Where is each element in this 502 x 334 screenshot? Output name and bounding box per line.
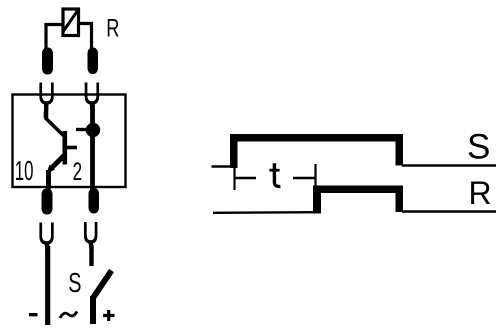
label minus	[29, 313, 38, 316]
wire bottom-left to minus	[45, 246, 50, 325]
connector pin top-right	[88, 48, 99, 75]
S waveform low lead-in	[212, 165, 234, 167]
transistor Q1 emitter with arrow	[47, 156, 65, 174]
R waveform high level	[313, 186, 402, 194]
box (module outline)	[13, 95, 126, 188]
connector pin bottom-left	[42, 189, 53, 215]
connector jack top-left	[39, 83, 53, 105]
connector pin top-left	[42, 48, 53, 75]
wire bottom-right to switch	[89, 245, 93, 266]
wire right lead of R	[79, 24, 92, 50]
t dimension line left	[235, 177, 257, 179]
R waveform low tail	[402, 210, 496, 212]
node junction dot	[86, 123, 100, 137]
S waveform high level	[230, 134, 401, 142]
svg-text:10: 10	[15, 155, 34, 186]
S waveform low tail	[402, 164, 496, 166]
resistor R (relay coil box with diagonal)	[63, 9, 79, 36]
R waveform rise edge	[313, 186, 321, 214]
R waveform fall edge	[396, 186, 404, 213]
transistor Q1 base stub	[67, 146, 77, 150]
R waveform low lead-in	[213, 211, 317, 214]
label t	[269, 163, 280, 186]
wire collector lead	[46, 112, 65, 136]
svg-text:S: S	[68, 268, 81, 299]
connector jack top-right	[85, 83, 99, 105]
wire right vertical in box	[90, 104, 95, 189]
svg-text:2: 2	[73, 158, 82, 186]
connector pin bottom-right	[89, 188, 100, 214]
switch S blade	[93, 271, 112, 299]
wire switch to plus	[90, 296, 96, 324]
svg-text:R: R	[106, 14, 119, 43]
label tilde	[60, 312, 77, 319]
wire emitter to box bottom	[46, 170, 51, 189]
wire dot stub left	[76, 128, 88, 131]
svg-text:R: R	[469, 175, 492, 211]
S waveform fall edge	[396, 134, 404, 166]
label plus	[103, 310, 115, 321]
t dimension right tick	[314, 164, 316, 187]
S waveform rise edge	[230, 134, 238, 168]
transistor Q1 base bar	[63, 131, 68, 165]
wire left lead of R	[46, 25, 63, 50]
t dimension left tick	[233, 168, 235, 191]
connector jack bottom-left	[39, 223, 53, 245]
t dimension line right	[293, 177, 316, 179]
connector jack bottom-right	[84, 222, 97, 244]
svg-text:S: S	[467, 128, 490, 167]
